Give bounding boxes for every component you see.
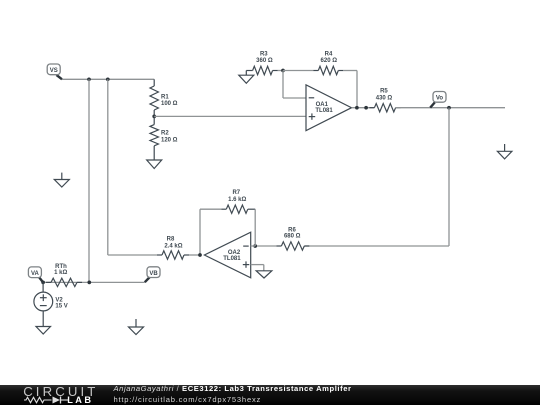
svg-text:R4: R4 [325,52,333,58]
node VB label [145,277,150,282]
wire OA2 + input to ground [251,264,264,266]
svg-text:TL081: TL081 [223,256,241,262]
svg-text:V2: V2 [55,297,63,303]
svg-text:R5: R5 [380,89,388,95]
node junction OA1 output-feedback [355,106,359,110]
svg-text:1 kΩ: 1 kΩ [54,270,67,276]
ground below V2 [42,326,44,328]
node VA label [39,277,43,282]
node junction VA [41,281,45,285]
resistor R1 [153,79,155,86]
wire vertical from VS wire to R8 wire [107,79,109,255]
op-amp OA1 TL081 [306,85,352,131]
ground floating bottom-middle [135,319,137,327]
resistor R6 [255,245,276,247]
svg-text:TL081: TL081 [315,108,333,114]
node junction on VS wire (left) [87,77,91,81]
node VS label [57,75,63,79]
wire VS horizontal [62,78,154,80]
resistor R8 [108,254,157,256]
node junction OA2 output [198,253,202,257]
footer text line 2 [114,396,262,404]
resistor R7 [199,209,201,255]
CircuitLab logo [23,385,98,398]
ground floating near Vo [504,144,506,151]
wire R4 feedback down to OA1 output [356,71,358,108]
resistor R3 [246,70,252,72]
ground at OA2 + input [263,270,265,272]
wire Vo down to R6 [448,108,450,246]
svg-text:2.4 kΩ: 2.4 kΩ [164,243,182,249]
node junction R1-R2 [152,115,156,119]
resistor R2 [153,116,155,124]
svg-text:430 Ω: 430 Ω [376,95,393,101]
svg-text:R7: R7 [232,190,240,196]
wire R5 to output end [396,107,505,109]
op-amp OA2 TL081 (mirrored) [204,232,250,278]
wire OA1 + input from R1/R2 junction [154,115,306,117]
resistor R5 [369,107,374,109]
svg-text:OA2: OA2 [228,250,241,256]
svg-text:R8: R8 [167,237,175,243]
node Vo label [430,102,435,107]
svg-text:100 Ω: 100 Ω [161,101,178,107]
svg-text:R3: R3 [260,52,268,58]
svg-text:680 Ω: 680 Ω [284,234,301,240]
wire OA2 - input stub [251,245,256,247]
ground below R2 [153,159,155,161]
node junction Vo [447,106,451,110]
wire OA1 output [352,107,375,109]
svg-text:R2: R2 [161,131,169,137]
node junction vertical-1 on VA-VB wire [87,281,91,285]
svg-text:15 V: 15 V [55,304,67,310]
node junction on VS wire (right) [106,77,110,81]
node junction R3-R4 (OA1 inverting net) [281,69,285,73]
svg-text:VA: VA [31,271,40,277]
node junction OA2 - input [253,244,257,248]
svg-text:R1: R1 [161,94,169,100]
svg-text:VS: VS [50,68,58,74]
resistor R4 [283,70,313,72]
svg-text:620 Ω: 620 Ω [321,58,338,64]
wire vertical from VS wire to VA-VB wire [88,79,90,282]
wire VA-VB horizontal [43,281,145,283]
svg-text:OA1: OA1 [316,102,329,108]
svg-text:1.6 kΩ: 1.6 kΩ [228,197,246,203]
wire from R3/R4 junction down to OA1 - input [282,71,284,99]
node junction OA1 output pin [364,106,368,110]
svg-text:120 Ω: 120 Ω [161,137,178,143]
ground at R3 left [245,71,247,76]
svg-text:360 Ω: 360 Ω [256,58,273,64]
voltage source V2 [42,282,44,292]
svg-text:RTh: RTh [55,264,67,270]
ground floating left [61,173,63,180]
svg-text:Vo: Vo [436,96,444,102]
footer bar [0,385,540,405]
resistor RTh [46,281,51,283]
svg-text:VB: VB [149,271,158,277]
footer text line 1 [114,385,352,393]
